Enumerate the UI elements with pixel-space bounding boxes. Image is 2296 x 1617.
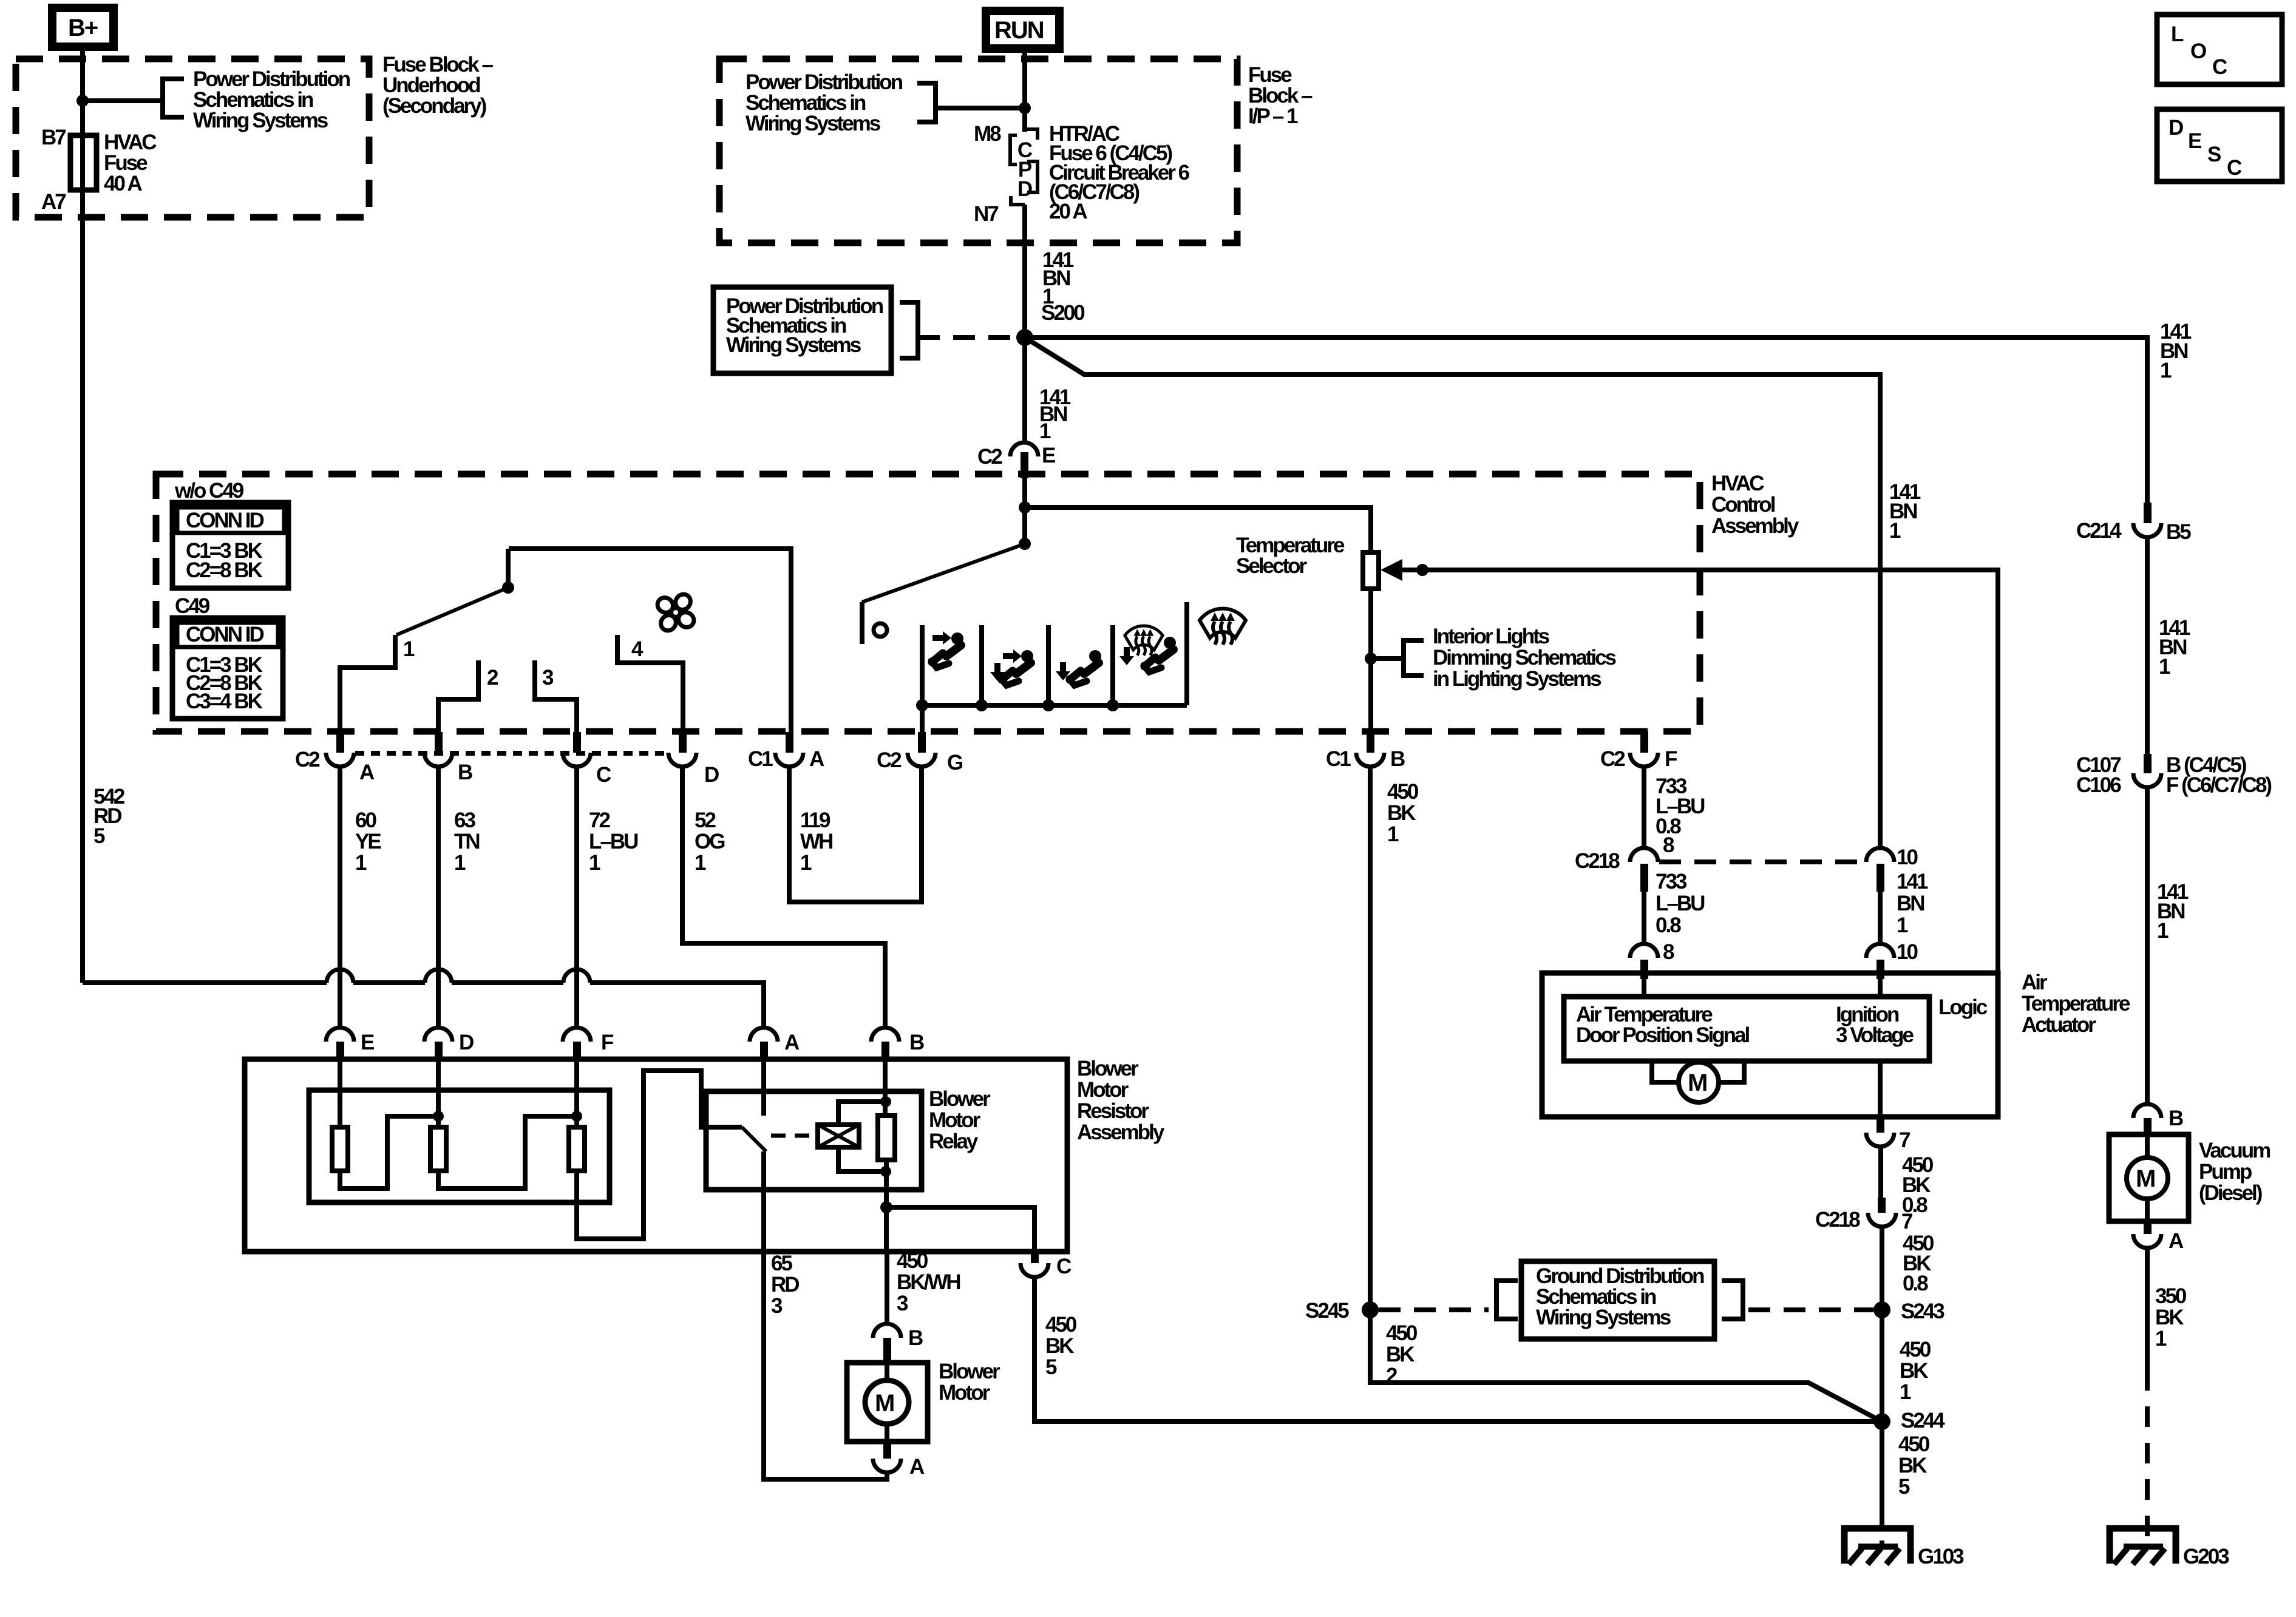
svg-text:D: D [459,1031,474,1054]
svg-text:BK: BK [1900,1359,1928,1383]
label power distribution ref 1 [193,67,350,132]
svg-text:Wiring Systems: Wiring Systems [193,109,328,132]
svg-text:1: 1 [1900,1380,1911,1404]
svg-text:M8: M8 [974,122,1001,146]
label 450 BK 5 [1045,1313,1077,1379]
svg-text:733: 733 [1656,870,1687,893]
svg-text:F (C6/C7/C8): F (C6/C7/C8) [2166,773,2271,797]
connector relay B [871,1028,924,1060]
bracket interior lights [1404,640,1424,676]
wire dashed to G103 [1880,1508,1884,1547]
svg-text:Relay: Relay [929,1130,979,1153]
connector C1 pin B [1326,732,1405,771]
connector resistor E [326,1028,374,1060]
svg-text:BK: BK [1387,801,1416,825]
wire 141 lower [1878,892,1883,945]
connector C2 pin D [668,732,719,787]
svg-text:C49: C49 [175,594,210,618]
node fan switch pivot [502,581,514,594]
label wire 141 BN 1 far right top [2160,320,2192,382]
wire dashed to G203 [2145,1370,2150,1547]
wire S200 right to C214 [1025,337,2147,505]
svg-text:72: 72 [589,808,610,832]
label power distribution ref 3 [726,294,883,357]
svg-text:RUN: RUN [994,17,1044,44]
svg-text:L: L [2171,22,2184,46]
connector relay A [750,1028,800,1060]
wire selector down to C1-B [1368,589,1373,733]
actuator logic inner box [1564,997,1929,1061]
svg-text:WH: WH [800,830,832,853]
svg-text:S244: S244 [1901,1409,1945,1432]
temperature selector resistor [1363,552,1379,589]
label wire 141 BN 1 to hvac [1039,385,1071,443]
connector blower motor B [873,1324,923,1363]
wire C107 to vacuum pump [2145,788,2150,1105]
svg-text:D: D [2169,116,2183,140]
ground distribution ref box [1521,1261,1714,1339]
blower motor symbol [865,1363,909,1442]
svg-text:119: 119 [800,808,830,832]
svg-text:L–BU: L–BU [1656,892,1705,915]
svg-text:Dimming Schematics: Dimming Schematics [1433,646,1617,670]
node interior lights tap [1365,653,1377,665]
wire 450 BK 0.8 lower [1880,1227,1884,1310]
svg-text:1: 1 [695,851,706,875]
mode contact bar 1 [920,625,925,705]
wire bus to C2-G [920,705,925,733]
splice S245 [1362,1301,1379,1318]
svg-text:C: C [2227,156,2242,180]
connector C214 [2076,503,2191,544]
node bus 1 [916,699,928,711]
wire 72 L-BU column [574,766,579,1028]
svg-text:Motor: Motor [939,1381,991,1405]
svg-text:1: 1 [454,851,466,875]
bracket power distribution ref 1 [163,79,184,117]
label vacuum pump diesel [2199,1139,2270,1205]
connector actuator pin 8 [1630,944,1658,979]
wire relay B in [883,1059,888,1116]
svg-text:1: 1 [403,637,415,661]
bracket power distribution ref 3 [900,302,918,358]
svg-text:OG: OG [695,830,725,853]
svg-text:B: B [909,1031,924,1054]
svg-text:RD: RD [771,1273,799,1297]
icon defrost mode [1200,609,1246,645]
svg-text:E: E [1042,444,1055,467]
resistor network box [309,1090,610,1202]
svg-text:A: A [784,1031,800,1054]
node F resistor junction [571,1111,582,1122]
wire dashed ground ref to S243 [1748,1307,1873,1312]
svg-text:Resistor: Resistor [1077,1099,1149,1123]
svg-text:CONN ID: CONN ID [186,509,264,532]
svg-text:C2: C2 [295,748,320,771]
ground G103 [1844,1528,1911,1564]
svg-text:G203: G203 [2183,1545,2229,1568]
svg-text:Logic: Logic [1938,995,1988,1019]
conn id table 2 [172,618,283,719]
svg-text:3: 3 [542,666,554,690]
svg-text:Vacuum: Vacuum [2199,1139,2270,1162]
svg-text:Wiring Systems: Wiring Systems [1536,1306,1671,1329]
wire branch to connector C [886,1207,1034,1252]
icon vent mode [931,631,963,668]
svg-text:3: 3 [771,1294,783,1318]
label blower motor resistor assembly [1077,1057,1165,1144]
wire bracket to run feed [936,106,1025,110]
label 63 TN 1 [454,808,479,875]
svg-text:B: B [1390,747,1405,771]
node blower motor branch [880,1201,892,1213]
svg-text:E: E [361,1031,374,1054]
svg-text:C1: C1 [1326,747,1351,771]
connector C107 C106 [2076,753,2271,797]
svg-text:F: F [1665,747,1677,771]
wire mode feed to temp selector [1025,507,1371,552]
svg-text:1: 1 [1889,519,1901,543]
svg-text:BK/WH: BK/WH [897,1270,960,1294]
svg-text:B+: B+ [68,15,98,41]
svg-text:B5: B5 [2166,520,2191,544]
label fuse block underhood [382,53,493,118]
svg-text:Wiring Systems: Wiring Systems [726,333,861,357]
label 119 WH 1 [800,808,832,875]
wire pump A down [2145,1249,2150,1370]
wire relay resistor down [884,1160,889,1252]
svg-text:B: B [908,1326,923,1350]
mode contact bar 5 [1184,602,1189,705]
arrowhead temp selector [1381,559,1402,581]
label 72 L-BU 1 [589,808,638,875]
dotted connector line C2 [355,751,668,756]
wire RUN down [1022,49,1027,132]
mode off circle [874,623,887,637]
label 60 YE 1 [355,808,381,875]
node arrow wire [1416,564,1428,576]
svg-text:450: 450 [1898,1432,1930,1456]
connector C1 pin A [748,732,824,771]
icon bilevel mode [990,649,1033,685]
svg-text:Actuator: Actuator [2022,1013,2096,1037]
resistor R2 [430,1127,446,1171]
svg-text:G103: G103 [1918,1545,1964,1568]
svg-text:1: 1 [355,851,367,875]
connector resistor C [1021,1252,1072,1278]
wire relay switch down [761,1151,766,1252]
svg-text:HVAC: HVAC [1711,472,1764,495]
svg-text:C3=4 BK: C3=4 BK [186,690,263,713]
wire D into resistor 2 [436,1059,441,1127]
wire 450 BK 0.8 upper [1878,1147,1883,1198]
svg-text:1: 1 [2159,655,2170,679]
label HTR/AC breaker [1049,122,1190,223]
label 450 BK 1 [1387,780,1419,846]
wire E into resistor 1 [338,1059,342,1127]
fan icon [654,591,696,633]
label ignition 3 voltage [1836,1003,1914,1047]
svg-text:C: C [596,763,611,787]
dashed connector line C218 [1659,859,1865,864]
fan switch contact 4 [617,635,683,733]
mode bus wire [922,703,1187,708]
label 450 BK 5 right [1898,1432,1930,1499]
node bus 3 [1042,699,1055,711]
wire S243 to S244 [1880,1310,1884,1422]
wire B+ down [80,47,85,983]
mode contact bar 2 [979,625,984,705]
splice S200 [1016,329,1033,346]
svg-text:1: 1 [800,851,812,875]
svg-text:3: 3 [897,1292,908,1315]
svg-text:D: D [704,763,719,787]
svg-text:D: D [1017,177,1032,201]
blower motor box [847,1363,928,1442]
blower motor relay box [706,1091,922,1190]
battery B+ symbol [52,8,114,47]
wire dashed bracket to S200 [918,335,1017,340]
svg-text:8: 8 [1663,833,1674,857]
svg-text:20 A: 20 A [1049,200,1087,223]
fan switch contact 3 [535,660,577,733]
svg-text:5: 5 [93,824,105,848]
fan switch blade [396,588,508,635]
label temperature selector [1236,534,1345,578]
svg-text:CONN ID: CONN ID [186,623,264,646]
svg-text:L–BU: L–BU [589,830,638,853]
label 141 BN 1 right mid [2159,616,2190,679]
wire S245 to S244 [1370,1310,1882,1422]
label power distribution ref 2 [746,70,903,135]
label 141 BN 1 right lower [2157,880,2189,943]
label 450 BK 2 [1386,1321,1418,1388]
svg-text:C: C [1056,1255,1072,1278]
mode off contact [860,602,864,644]
svg-text:S243: S243 [1901,1300,1944,1323]
label HVAC fuse [104,131,157,195]
icon floor mode [1056,650,1101,685]
svg-text:Air: Air [2022,971,2048,994]
label 450 BK 1 right [1900,1338,1931,1404]
svg-text:Motor: Motor [929,1108,981,1132]
connector C218 pin 8 [1575,848,1658,892]
connector resistor D [424,1028,474,1060]
label fuse block I/P [1248,63,1313,128]
svg-text:1: 1 [589,851,600,875]
air temperature actuator box [1542,973,1998,1117]
svg-text:450: 450 [897,1249,928,1273]
connector C2 pin G [877,732,963,775]
wire R2 to F junction [438,1116,577,1188]
svg-text:8: 8 [1663,940,1674,964]
label 65 RD 3 [771,1252,799,1318]
node mode switch pivot [1019,538,1031,550]
wire dashed S245 to ground ref [1379,1307,1489,1312]
connector blower motor A [873,1442,925,1479]
svg-text:G: G [947,751,963,775]
label 450 BK/WH 3 [897,1249,960,1315]
svg-text:60: 60 [355,808,376,832]
svg-text:A: A [809,747,824,771]
node bus 2 [976,699,988,711]
svg-text:0.8: 0.8 [1656,914,1681,937]
svg-text:C: C [2212,55,2227,79]
svg-text:C218: C218 [1575,849,1620,873]
mode switch feed wire [1022,478,1027,544]
vacuum pump box [2109,1134,2189,1221]
svg-text:Motor: Motor [1077,1078,1129,1102]
svg-text:Blower: Blower [1077,1057,1139,1080]
wire 52 OG column [682,766,885,1028]
svg-text:Wiring Systems: Wiring Systems [746,112,881,135]
svg-text:S245: S245 [1305,1299,1349,1323]
wire 733 upper [1642,766,1646,849]
svg-text:Assembly: Assembly [1077,1120,1165,1144]
connector C2 pin F [1600,731,1677,771]
svg-text:Interior Lights: Interior Lights [1433,625,1550,648]
relay resistor [878,1116,895,1160]
svg-text:Control: Control [1711,493,1775,517]
svg-text:Blower: Blower [939,1360,1000,1383]
svg-text:B: B [458,761,472,784]
connector C2 pin A [295,732,375,784]
connector actuator pin 10 [1866,944,1894,979]
svg-text:BN: BN [1897,892,1924,915]
node bus 4 [1107,699,1119,711]
svg-text:E: E [2188,129,2201,153]
ground G203 [2110,1528,2176,1564]
LOC box [2157,15,2282,84]
conn id table 1 [172,503,288,588]
svg-text:M: M [2136,1165,2155,1192]
svg-text:A7: A7 [41,190,66,214]
wire 60 YE column [338,766,342,1028]
label air temperature actuator [2022,971,2130,1037]
svg-text:A: A [909,1455,925,1479]
fan switch pivot stem [506,549,511,588]
resistor R3 [569,1127,585,1171]
svg-text:141: 141 [1897,870,1928,893]
svg-text:450: 450 [1386,1321,1418,1345]
svg-text:TN: TN [454,830,479,853]
svg-text:A: A [2169,1229,2184,1253]
connector vacuum pump B [2133,1104,2183,1134]
label blower motor relay [929,1087,991,1153]
svg-text:BK: BK [1386,1343,1415,1366]
connector C218 pin 10 [1866,846,1918,892]
svg-text:350: 350 [2155,1284,2187,1308]
svg-text:1: 1 [1039,419,1051,443]
svg-text:3 Voltage: 3 Voltage [1836,1023,1914,1047]
svg-text:w/o C49: w/o C49 [174,479,244,503]
wire breaker to S200 [1022,205,1027,337]
connector resistor F [563,1028,614,1060]
svg-text:C106: C106 [2076,773,2121,797]
ignition RUN symbol [986,11,1059,49]
label wire 542 RD 5 [93,785,125,848]
node junction run feed [1019,102,1031,114]
svg-text:N7: N7 [974,202,998,226]
label 350 BK 1 [2155,1284,2187,1351]
fuse block underhood dashed box [16,59,369,217]
node relay resistor top [880,1096,891,1107]
wire S200 down to C2-E [1022,337,1027,443]
svg-text:65: 65 [771,1252,792,1275]
fan switch top wire [509,549,791,733]
label 733 L-BU 0.8 upper [1656,775,1705,857]
relay switch blade [742,1127,766,1151]
mode switch blade [862,544,1025,602]
circuit breaker 6 symbol [1010,129,1038,205]
relay coil box [818,1125,859,1147]
svg-text:S200: S200 [1041,301,1085,325]
svg-text:BK: BK [1898,1454,1927,1477]
svg-text:C2: C2 [877,748,902,772]
label interior lights dimming [1433,625,1617,691]
svg-text:(Diesel): (Diesel) [2199,1181,2262,1205]
svg-text:M: M [1688,1070,1707,1096]
svg-text:450: 450 [1900,1338,1931,1361]
bracket ground ref right [1722,1281,1743,1319]
svg-text:BK: BK [1045,1334,1074,1358]
resistor R1 [332,1127,348,1171]
label wire 141 BN 1 upper [1042,248,1074,308]
connector vacuum pump A [2133,1221,2184,1253]
label ground distribution [1536,1264,1704,1329]
svg-text:Blower: Blower [929,1087,991,1111]
svg-text:10: 10 [1897,940,1918,964]
wire 65 RD to motor A [764,1252,887,1479]
wire 733 lower [1642,892,1646,945]
connector C218 pin 7 [1815,1198,1912,1233]
wire 450 BK to S245 [1368,766,1373,1310]
label 733 L-BU 0.8 lower [1656,870,1705,964]
splice S243 [1873,1301,1890,1318]
wire pin10 to logic [1878,973,1883,997]
svg-text:C2=8 BK: C2=8 BK [186,558,263,582]
wire relay A in [761,1059,766,1116]
svg-text:in Lighting Systems: in Lighting Systems [1433,667,1601,691]
fan switch contact 2 [438,660,478,733]
svg-text:B: B [2169,1107,2183,1130]
svg-text:0.8: 0.8 [1903,1272,1928,1295]
wire R3 to relay switch [577,1071,742,1239]
connector actuator pin 7 [1866,1117,1910,1152]
icon blend mode [1119,626,1176,672]
mode contact bar 3 [1046,625,1051,705]
label 141 BN 1 lower [1897,870,1928,964]
svg-text:C2: C2 [1600,747,1625,771]
bracket ground ref left [1496,1281,1518,1319]
wire to interior lights bracket [1371,656,1404,661]
wire S200 diagonal branch to actuator [1025,337,1880,848]
wire 63 TN column [436,766,441,1028]
actuator motor M [1652,1061,1744,1102]
svg-text:B7: B7 [41,126,66,149]
wire 119 WH loop [789,766,922,902]
label wire 141 BN 1 actuator branch [1889,480,1921,543]
svg-text:C1: C1 [748,747,773,771]
svg-text:C2: C2 [977,445,1002,469]
label 450 BK 0.8 lower [1903,1232,1934,1295]
wire ignition down [1878,1061,1883,1117]
svg-text:63: 63 [454,808,475,832]
svg-text:BK: BK [2155,1306,2184,1329]
svg-text:1: 1 [1897,914,1908,937]
label 450 BK 0.8 upper [1902,1153,1934,1217]
vacuum pump motor [2127,1134,2168,1221]
